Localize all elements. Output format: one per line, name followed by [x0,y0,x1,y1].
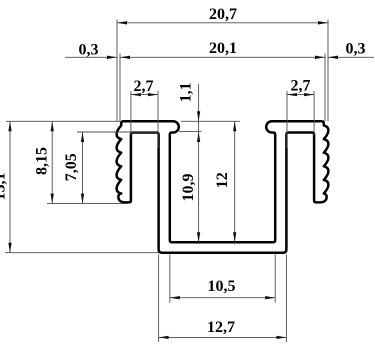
arrow 10,5 left [170,296,180,299]
svg-text:12,7: 12,7 [207,319,235,336]
dimension line 0,3 right segment [328,56,374,58]
arrow 13,1 bottom [8,243,11,253]
svg-text:10,9: 10,9 [180,174,197,202]
svg-text:2,7: 2,7 [291,78,311,95]
svg-text:1,1: 1,1 [178,82,195,102]
arrow 13,1 top [8,121,11,131]
extension line right wall inner face (10,5) [274,255,276,303]
extension line left wall outer face (12,7) [158,255,160,343]
svg-text:0,3: 0,3 [346,41,366,58]
arrow 0,3 left external [107,56,117,59]
arrow 1,1 top external [197,111,200,121]
dimension line 1,1 / 10,9 (shared) [198,84,200,242]
svg-text:20,7: 20,7 [209,6,237,23]
arrow 7,05 bottom [81,194,84,204]
extension line top surface to left [6,120,120,122]
extension line left hook inner face (2,7) [130,91,132,135]
extension line right wall outer face (12,7) [285,255,287,343]
extension line flange underside to left (7,05) [77,131,158,133]
dimension line 8,15 [51,121,53,203]
arrow 2,7 left dim right end [148,93,158,96]
arrow 20,1 right [315,56,325,59]
dimension line 0,3 left segment [65,56,117,58]
extension line left flat face (20,1) [119,54,121,122]
dimension line 12,7 [159,336,287,338]
arrow 8,15 bottom [51,194,54,204]
arrow 2,7 right dim left end [287,93,297,96]
dimension line 2,7 left [131,94,158,96]
dimension line 10,5 [170,297,275,299]
arrow 12 top [233,121,236,131]
arrow 2,7 left dim left end [131,93,141,96]
svg-text:20,1: 20,1 [209,40,237,57]
extension line left wall outer face (2,7) [157,91,159,148]
arrow 10,9 bottom [197,232,200,242]
arrow 20,1 left [120,56,130,59]
svg-text:10,5: 10,5 [208,278,236,295]
dimension line 20,7 [117,22,328,24]
arrow 8,15 top [51,121,54,131]
arrow 10,5 right [265,296,275,299]
extension line profile bottom to left (13,1) [5,252,159,254]
extension line left wall inner face (10,5) [169,255,171,303]
svg-text:0,3: 0,3 [79,41,99,58]
dimension line 12 [234,121,236,242]
arrow 12,7 left [159,336,169,339]
extension line bulb underside (1,1 / 10,9) [179,131,202,133]
arrow 12 bottom [233,232,236,242]
extension line right hook inner face (2,7) [313,91,315,135]
extension line right flat face (20,1) [324,54,326,122]
arrow 20,7 left [117,21,127,24]
extension line right wall outer face (2,7) [286,91,288,148]
svg-text:12: 12 [214,172,231,188]
arrow 12,7 right [276,336,286,339]
profile outline (aluminium U-channel with knurled side hooks) [117,121,329,252]
svg-text:7,05: 7,05 [63,153,80,181]
extension line hook bottom to left (8,15 / 7,05) [47,203,128,205]
dimension line 20,1 [120,56,325,58]
extension line top surface to right (1,1 / 12) [181,120,240,122]
extension line right outer bump (20,7) [327,20,329,122]
extension line left outer bump (20,7) [116,20,118,122]
svg-text:2,7: 2,7 [134,78,154,95]
arrow 0,3 right external [328,56,338,59]
arrow 2,7 right dim right end [304,93,314,96]
arrow 7,05 top [81,132,84,142]
dimension line 13,1 [9,121,11,252]
arrow 20,7 right [318,21,328,24]
arrow 1,1 bottom / 10,9 top [197,132,200,142]
svg-text:13,1: 13,1 [0,173,8,201]
dimension line 7,05 [82,132,84,204]
dimension line 2,7 right [287,94,314,96]
svg-text:8,15: 8,15 [33,147,50,175]
